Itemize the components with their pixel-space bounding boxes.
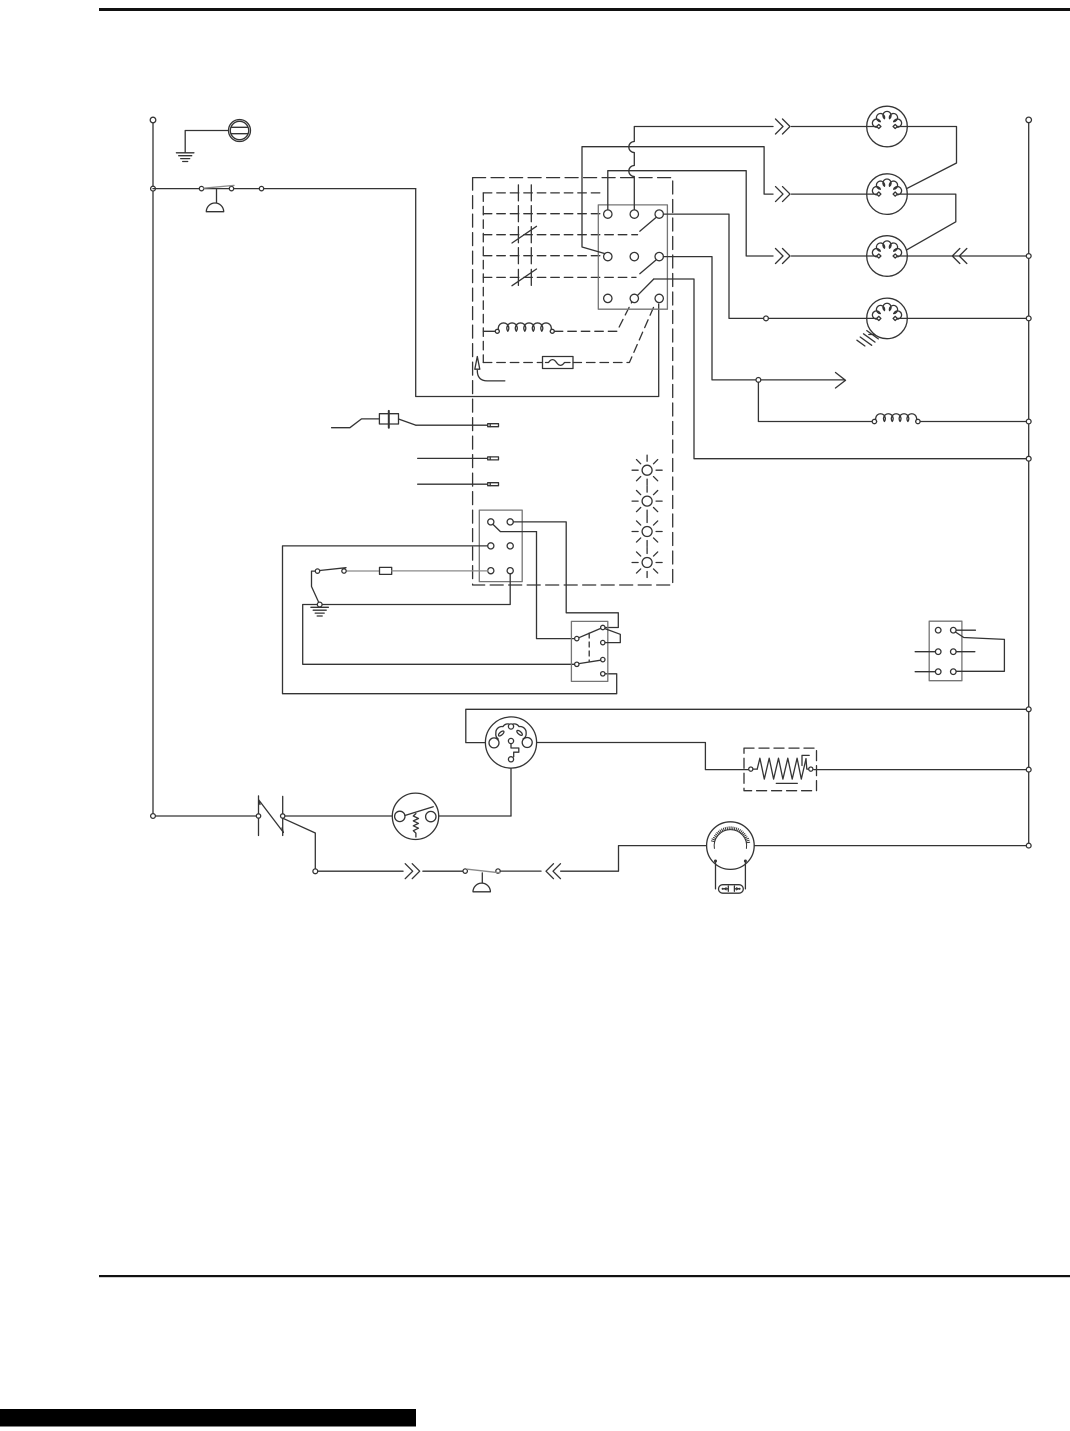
switch block pin 2 — [630, 210, 638, 218]
accessory block pin 4 — [951, 649, 957, 655]
wire: fuse to contact block (dashed) — [573, 303, 655, 362]
redacted caption bar — [0, 1409, 416, 1427]
toggle blade upper — [579, 628, 601, 637]
toggle jumper R1-R2 — [605, 629, 620, 643]
node: right rail / M3 — [1026, 254, 1031, 259]
start (horn) switch — [467, 869, 500, 873]
contact bus (dashed) — [482, 193, 484, 363]
relay pin 1 — [488, 519, 494, 525]
wire: branch to off-page arrow — [761, 379, 844, 381]
toggle pin R1 — [601, 625, 605, 629]
accessory stub: pin2 right — [956, 629, 975, 631]
wire: stub 2 — [418, 457, 488, 459]
wire: starter to right rail — [754, 845, 1026, 847]
indicator lamp L1 — [632, 455, 662, 485]
accessory switch block — [929, 621, 962, 681]
node: left rail / horn feed junction — [151, 186, 156, 191]
accessory block pin 2 — [951, 627, 957, 633]
contact row 2 (NO) — [483, 206, 603, 222]
wire: bus to relay coil — [483, 330, 495, 332]
blade: pole 3 — [638, 279, 654, 295]
node: right rail / choke — [1026, 419, 1031, 424]
wire: horn feed — [153, 188, 416, 190]
gauge (sender) symbol — [229, 120, 251, 142]
wire: M2 to M3 link — [896, 194, 956, 256]
connector chevron: M2 lead — [776, 187, 791, 202]
node: right rail / main feed — [1026, 707, 1031, 712]
toggle pin R3 — [601, 657, 605, 661]
switch block pin 5 — [630, 252, 638, 260]
wire: M3 to right rail — [907, 255, 1026, 257]
wire: rail to disconnect switch — [156, 815, 256, 817]
accessory blade + loop — [955, 632, 1004, 671]
connector chevron: M3 return — [952, 249, 967, 264]
resistor enclosure (dashed) — [744, 748, 817, 791]
blade: pole 1 — [640, 217, 657, 231]
wire: stub 1 — [416, 424, 488, 426]
motor M1 — [867, 106, 908, 147]
wire: right rail — [1028, 123, 1030, 846]
wire: bus to fuse (dashed) — [483, 362, 542, 364]
horn switch — [199, 185, 263, 190]
switch block (flasher/turn unit) — [598, 205, 667, 309]
wire: disconnect to key switch — [285, 815, 392, 817]
wire: to motor M2 — [582, 147, 773, 254]
relay pin 6 — [507, 568, 513, 574]
accessory block pin 6 — [951, 669, 957, 675]
relay blade — [493, 524, 537, 531]
toggle pin R4 — [601, 672, 605, 676]
toggle pin L1 — [575, 636, 579, 640]
node: right rail / M4 — [1026, 316, 1031, 321]
arrow head — [836, 373, 846, 389]
relay pin 3 — [488, 543, 494, 549]
motor M2 — [867, 174, 908, 215]
accessory stub: pin4 right — [956, 651, 975, 653]
thermal element — [475, 357, 505, 381]
wire: gauge to ground — [185, 131, 228, 153]
toggle link (dashed) — [588, 633, 590, 661]
switch block pin 7 — [604, 294, 612, 302]
accessory block pin 3 — [935, 649, 941, 655]
wire: connector bottom to key switch — [510, 768, 512, 816]
connector chevron: M1 lead — [776, 119, 791, 134]
wire: horn switch to flasher block — [416, 189, 659, 397]
key switch — [392, 793, 438, 839]
wire: choke to right rail — [920, 421, 1026, 423]
battery disconnect switch — [256, 796, 285, 836]
relay pin 4 — [507, 543, 513, 549]
indicator lamp L3 — [632, 517, 662, 547]
connector chevron: starter lead — [546, 864, 561, 879]
key switch connector — [485, 717, 536, 768]
wire: connector right lead to resistor — [537, 743, 749, 770]
connector chevron: start lead — [405, 864, 420, 879]
choke coil — [872, 414, 920, 424]
wire: to motor M1 (with crossover hops) — [629, 127, 773, 210]
node: ground tap — [317, 602, 322, 607]
contact row 1 (NO) — [483, 185, 604, 201]
starter motor — [707, 822, 755, 893]
node: M4 feed — [764, 316, 769, 321]
node: left rail bottom junction — [151, 814, 156, 819]
node: start bus left — [313, 869, 318, 874]
wire: relay pin3 loop to toggle pin R4 — [283, 546, 617, 694]
pin terminal 1 — [488, 424, 499, 427]
switch block pin 8 — [630, 294, 638, 302]
wire: M4 to right rail — [907, 317, 1026, 319]
node: branch — [756, 378, 761, 383]
motor M4 (grounded) — [857, 298, 907, 346]
relay pin 5 — [488, 568, 494, 574]
pin terminal 2 — [488, 457, 499, 460]
motor M3 — [867, 236, 908, 277]
wire: pressure switch to ground node — [312, 571, 320, 604]
wire: coil to contact block (dashed) — [554, 303, 631, 332]
accessory block pin 5 — [935, 669, 941, 675]
ground: gauge — [176, 153, 194, 162]
wire: switch to starter — [500, 870, 541, 872]
wire: key switch to connector drop — [439, 815, 511, 817]
relay coil — [495, 323, 554, 333]
contact row 5 (NC) — [483, 269, 636, 286]
node: right rail / blade wire — [1026, 456, 1031, 461]
switch block pin 9 — [655, 294, 663, 302]
node: left rail top terminal — [150, 117, 156, 123]
wire: relay blade to toggle switch — [537, 532, 575, 639]
toggle pin L2 — [575, 662, 579, 666]
wire: start bus — [318, 870, 403, 872]
wire: pole-3 blade to right rail — [654, 279, 1026, 459]
relay block — [479, 510, 522, 581]
switch block pin 6 — [655, 252, 663, 260]
bottom page rule — [99, 1275, 1070, 1277]
node: right rail / resistor — [1026, 767, 1031, 772]
accessory stub: pin5 left — [915, 671, 935, 673]
wire: M1 to M2 link — [896, 127, 957, 195]
switch block pin 4 — [604, 252, 612, 260]
wire: disconnect tap to start bus — [283, 818, 316, 869]
ground: relay circuit — [311, 607, 329, 616]
dashed enclosure: control unit — [473, 178, 673, 585]
wire: branch down to choke coil — [758, 382, 872, 421]
wire: left battery rail — [152, 123, 154, 817]
toggle pin R2 — [601, 640, 605, 644]
switch block pin 1 — [604, 210, 612, 218]
resistor element — [749, 755, 813, 783]
switch block pin 3 — [655, 210, 663, 218]
node: right rail top terminal — [1026, 117, 1032, 123]
pressure switch — [315, 568, 346, 574]
wire: resistor to right rail — [814, 769, 1026, 771]
accessory block pin 1 — [935, 627, 941, 633]
contact row 3 (NC) — [483, 226, 637, 243]
wire: to motor M3 — [608, 171, 773, 256]
horn (start warning) — [473, 873, 490, 892]
fuse — [543, 357, 574, 369]
wire: stub 3 — [418, 483, 488, 485]
blade: pole 2 — [640, 260, 657, 274]
wire: connector left lead to main feed — [466, 709, 1026, 742]
wire: relay pin2 to toggle pin R1 — [513, 522, 618, 628]
node: start switch feed — [463, 869, 467, 873]
wire: node to M4 — [768, 317, 866, 319]
relay pin 2 — [507, 519, 513, 525]
pin terminal 3 — [488, 483, 499, 486]
indicator lamp L2 — [632, 486, 662, 516]
horn — [206, 189, 223, 212]
node: right rail / starter — [1026, 843, 1031, 848]
connector chevron: M3 lead — [776, 249, 791, 264]
wire: pin6 to branch node — [663, 257, 755, 380]
contact row 4 (NO) — [483, 248, 603, 264]
inline connector (sensor lead) — [332, 411, 416, 428]
toggle switch — [571, 621, 607, 681]
fuse link (lead to relay pin5) — [347, 567, 488, 574]
wire: relay pin6 to ground bus — [303, 574, 575, 665]
top page rule — [99, 8, 1070, 11]
toggle blade lower — [579, 660, 601, 663]
wire: pin3 to motor M4 — [663, 214, 763, 318]
indicator lamp L4 — [632, 548, 662, 578]
accessory stub: pin3 left — [915, 651, 935, 653]
